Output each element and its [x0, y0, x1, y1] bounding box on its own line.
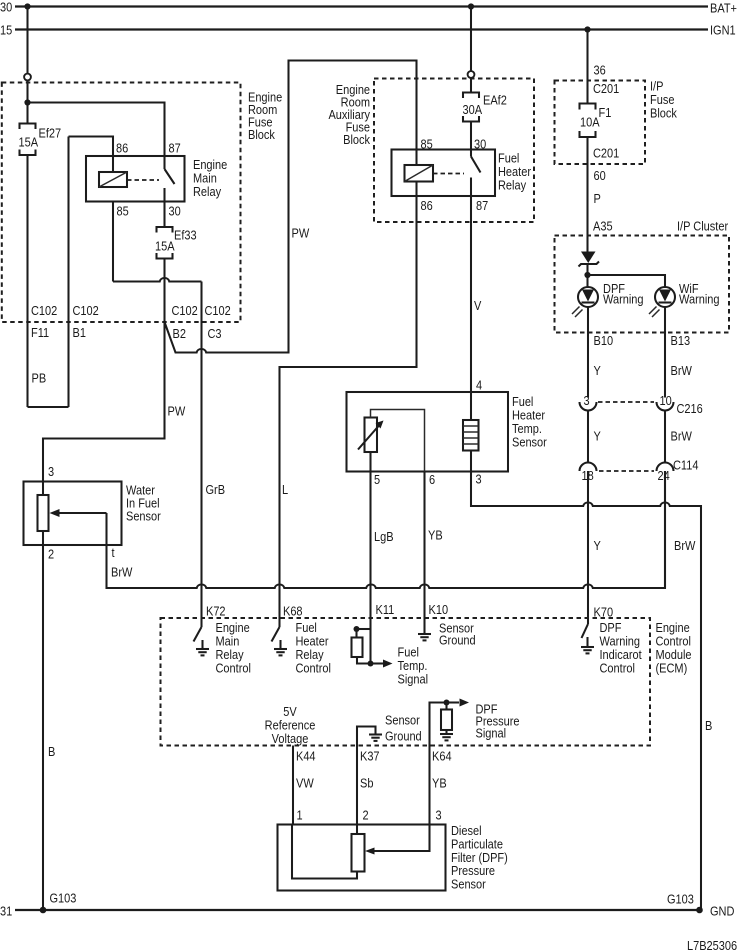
fuse Ef27 15A [18, 124, 61, 156]
wire LgB to K11 [369, 472, 371, 619]
svg-text:Warning: Warning [603, 292, 644, 307]
svg-text:10A: 10A [580, 115, 600, 130]
svg-text:P: P [594, 191, 601, 206]
wire relay 87 down V [470, 196, 472, 392]
wire bus30 to fuse Ef27 [26, 7, 28, 123]
svg-text:BrW: BrW [111, 565, 133, 580]
junction dot bus15/F1 feed [584, 26, 590, 32]
wire B2 branch to PW riser [165, 61, 417, 353]
wire thermistor top jog to pin 6 [371, 410, 425, 472]
svg-text:K44: K44 [296, 749, 316, 764]
svg-text:2: 2 [363, 808, 369, 823]
svg-text:86: 86 [420, 198, 433, 213]
svg-text:15: 15 [0, 23, 13, 38]
connector C216 pin 3 [580, 393, 597, 410]
wire PW down branch to water sensor [43, 322, 165, 482]
wire VW K44 to DPF sensor pin 1 [292, 746, 294, 825]
wire DPF lamp to B10 [587, 307, 589, 398]
svg-text:Control: Control [215, 661, 250, 676]
svg-text:GrB: GrB [205, 482, 225, 497]
svg-text:30A: 30A [462, 102, 482, 117]
svg-text:PW: PW [168, 404, 186, 419]
svg-text:Voltage: Voltage [272, 731, 309, 746]
I/P Fuse Block (dashed box) [555, 79, 677, 164]
lamp WiF Warning [649, 281, 720, 317]
wire BrW horizontal with hops [107, 471, 666, 588]
fuel temp signal arrow [371, 645, 429, 687]
heater element [463, 392, 479, 472]
connector C102 C3 label [204, 303, 231, 341]
fuse F1 10A [580, 104, 612, 138]
svg-text:C102: C102 [204, 303, 231, 318]
svg-text:L7B25306: L7B25306 [687, 938, 737, 952]
K70 switch to ground [581, 618, 594, 653]
svg-text:BrW: BrW [671, 363, 693, 378]
K10 ground [418, 618, 476, 648]
connector C102 F11 label [31, 303, 58, 340]
svg-text:Block: Block [343, 132, 370, 147]
svg-text:Relay: Relay [498, 178, 526, 193]
svg-text:87: 87 [476, 198, 489, 213]
DPF sensor arrow [365, 825, 430, 855]
svg-text:Warning: Warning [679, 292, 720, 307]
wire B1 up leg [67, 137, 69, 408]
svg-text:BrW: BrW [671, 429, 693, 444]
svg-text:F11: F11 [31, 325, 49, 340]
svg-text:85: 85 [420, 137, 433, 152]
svg-text:Signal: Signal [475, 726, 506, 741]
svg-text:86: 86 [116, 141, 129, 156]
K72 function label [215, 620, 250, 676]
thermistor element [358, 418, 384, 453]
K68 function label [296, 620, 331, 676]
wire diode to lamps junction [586, 264, 588, 288]
relay link dashed (engine main) [127, 179, 159, 181]
svg-text:24: 24 [658, 468, 671, 483]
svg-text:Control: Control [296, 661, 331, 676]
svg-text:Ef27: Ef27 [39, 126, 62, 141]
wire BrW down from C114 24 [664, 471, 666, 588]
wire Y between C216 and C114 [587, 411, 589, 463]
svg-text:K11: K11 [375, 602, 394, 617]
svg-text:B: B [705, 718, 712, 733]
wire Y down to K70 [587, 471, 589, 618]
K37 ground symbol [357, 713, 422, 746]
wire junction to WiF lamp [588, 275, 666, 288]
svg-text:Ground: Ground [439, 633, 476, 648]
connector circle on Ef27 feed [24, 74, 31, 81]
wire F1 down to cluster [586, 137, 588, 252]
connector C114 pin 24 [657, 458, 699, 484]
svg-text:Block: Block [248, 127, 275, 142]
relay switch blade (fuel heater) [471, 150, 481, 197]
svg-text:Ground: Ground [385, 729, 422, 744]
Engine Room Fuse Block (dashed box) [2, 83, 283, 323]
svg-text:Sensor: Sensor [512, 435, 547, 450]
svg-text:85: 85 [117, 204, 130, 219]
svg-text:C3: C3 [207, 326, 221, 341]
wire YB K64 to DPF sensor pin 3 [428, 746, 430, 825]
connector C102 B2 label [171, 303, 198, 341]
wire heater ground B with hops [471, 472, 701, 911]
wire Ef27 to F11 (PB) [26, 155, 28, 407]
DPF sensor element [292, 825, 365, 879]
svg-text:VW: VW [296, 776, 314, 791]
fuel heater temp sensor box [347, 392, 547, 472]
svg-text:30: 30 [0, 0, 13, 15]
DPF pressure sensor box [278, 823, 508, 892]
junction dot bus30/EAf2 feed [468, 3, 474, 9]
svg-text:G103: G103 [667, 892, 694, 907]
svg-text:B2: B2 [173, 326, 187, 341]
bus 30 (BAT+) [0, 0, 737, 16]
wire relay 86 coil out [415, 182, 417, 197]
svg-text:Signal: Signal [397, 672, 428, 687]
svg-text:C114: C114 [673, 458, 699, 473]
relay coil (engine main) [99, 172, 127, 187]
connector C216 pin 10 [657, 393, 704, 416]
svg-text:B10: B10 [594, 333, 614, 348]
svg-text:Sensor: Sensor [385, 713, 420, 728]
ground G103 left junction [40, 891, 77, 914]
connector C216 dashed link [598, 401, 654, 403]
svg-text:Sb: Sb [360, 776, 374, 791]
Engine Room Auxiliary Fuse Block (dashed box) [328, 79, 534, 223]
connector C102 B1 label [73, 303, 100, 340]
svg-text:GND: GND [710, 904, 735, 919]
wire GrB down to K72 [200, 282, 202, 619]
svg-text:4: 4 [476, 378, 482, 393]
svg-text:Ef33: Ef33 [174, 228, 197, 243]
I/P Cluster (dashed box) [555, 219, 730, 333]
svg-text:Y: Y [594, 429, 601, 444]
svg-text:C102: C102 [31, 303, 58, 318]
5V reference voltage label [265, 704, 316, 746]
DPF pressure signal label [475, 702, 519, 741]
wire BrW between C216 and C114 [664, 411, 666, 463]
bus 15 (IGN1) [0, 23, 736, 38]
wire Ef33 down B2 [163, 259, 165, 323]
svg-text:C102: C102 [73, 303, 100, 318]
svg-text:IGN1: IGN1 [710, 23, 736, 38]
wire thermistor bottom to pin 5 [369, 452, 371, 472]
svg-text:PB: PB [31, 371, 46, 386]
svg-text:36: 36 [594, 63, 607, 78]
ground G103 right junction [667, 892, 703, 914]
svg-text:B13: B13 [671, 333, 691, 348]
svg-text:PW: PW [291, 226, 309, 241]
svg-text:Block: Block [650, 106, 677, 121]
lamp DPF Warning [572, 281, 644, 317]
svg-text:3: 3 [48, 464, 54, 479]
svg-text:Sensor: Sensor [451, 877, 486, 892]
wire junction to engine main relay pin 87 [28, 103, 165, 157]
svg-text:K10: K10 [428, 602, 448, 617]
connector circle on EAf2 feed [468, 71, 475, 78]
wire IGN1 to fuse F1 [586, 30, 588, 104]
svg-text:C201: C201 [593, 81, 620, 96]
wire 85 horizontal with hop over Ef33 wire [113, 278, 202, 282]
svg-text:3: 3 [583, 393, 589, 408]
wire EAf2 to relay pin 30 [470, 122, 472, 150]
wire bus30 to fuse EAf2 [470, 7, 472, 93]
water sensor arrow [50, 509, 107, 545]
wire B down from water sensor [42, 545, 44, 910]
svg-text:Relay: Relay [193, 184, 221, 199]
svg-text:K72: K72 [206, 604, 226, 619]
wire to relay pin 86 [69, 137, 114, 173]
wire PB U-turn bottom [28, 406, 69, 408]
bus 31 (GND) [0, 904, 735, 919]
svg-text:K37: K37 [360, 749, 380, 764]
fuse EAf2 30A [462, 93, 507, 122]
K11 pull-up resistor network [352, 618, 374, 667]
svg-text:B: B [48, 744, 55, 759]
svg-text:30: 30 [474, 137, 487, 152]
svg-text:Sensor: Sensor [126, 509, 161, 524]
wire YB to K10 [423, 472, 425, 619]
junction dot lamps [584, 272, 590, 278]
svg-text:EAf2: EAf2 [483, 93, 507, 108]
relay link dashed (fuel heater) [433, 173, 464, 175]
pin 85 stub into coil [415, 150, 417, 166]
svg-text:L: L [282, 482, 288, 497]
fuse Ef33 15A [155, 227, 197, 259]
relay coil (fuel heater) [405, 165, 434, 182]
wire WiF lamp to B13 [664, 307, 666, 398]
svg-text:F1: F1 [599, 105, 612, 120]
wire 86 to L riser (K68) [280, 196, 417, 618]
svg-text:3: 3 [475, 472, 481, 487]
K68 switch to ground [272, 618, 288, 655]
junction dot bus30/Ef27 feed [24, 3, 30, 9]
svg-text:87: 87 [168, 141, 181, 156]
svg-text:G103: G103 [50, 891, 77, 906]
K64 pressure signal network [430, 699, 470, 746]
K72 switch to ground [194, 618, 210, 655]
svg-text:6: 6 [429, 472, 435, 487]
svg-text:B1: B1 [73, 325, 87, 340]
svg-text:C102: C102 [171, 303, 198, 318]
connector C114 pin 18 [580, 463, 597, 484]
svg-text:Control: Control [600, 661, 635, 676]
svg-text:Y: Y [594, 538, 601, 553]
svg-text:K64: K64 [432, 749, 452, 764]
relay switch blade (engine main) [165, 156, 175, 202]
diode D1 in cluster [579, 252, 600, 267]
svg-text:15A: 15A [155, 239, 175, 254]
svg-text:V: V [474, 298, 481, 313]
svg-text:K68: K68 [283, 604, 303, 619]
svg-text:BrW: BrW [674, 538, 696, 553]
water in fuel sensor box [24, 482, 161, 546]
relay U1 Engine Main Relay box [86, 156, 228, 202]
svg-text:C201: C201 [593, 146, 620, 161]
svg-text:I/P Cluster: I/P Cluster [677, 219, 728, 234]
svg-text:3: 3 [435, 808, 441, 823]
svg-text:(ECM): (ECM) [655, 661, 687, 676]
svg-text:60: 60 [594, 168, 607, 183]
svg-text:Y: Y [594, 363, 601, 378]
svg-text:YB: YB [428, 528, 443, 543]
node junction dot to relay 87 branch [24, 99, 30, 105]
svg-text:YB: YB [432, 776, 447, 791]
connector C114 dashed link [599, 470, 654, 472]
svg-text:30: 30 [168, 204, 181, 219]
svg-text:31: 31 [0, 904, 13, 919]
ECM Engine Control Module (dashed box) [161, 618, 692, 746]
svg-text:LgB: LgB [374, 529, 394, 544]
svg-text:1: 1 [296, 808, 302, 823]
relay U2 Fuel Heater Relay box [392, 150, 532, 197]
K70 function label [600, 620, 643, 676]
svg-text:t: t [112, 545, 116, 560]
svg-text:2: 2 [48, 547, 54, 562]
svg-text:5: 5 [374, 472, 380, 487]
svg-text:15A: 15A [18, 135, 38, 150]
wire Sb K37 to DPF sensor pin 2 [356, 746, 358, 825]
svg-text:BAT+: BAT+ [710, 1, 737, 16]
wire relay 85 down [112, 202, 114, 282]
wire relay 30 to fuse Ef33 [163, 202, 165, 228]
svg-text:A35: A35 [593, 219, 613, 234]
svg-text:C216: C216 [677, 401, 704, 416]
water sensor element [38, 482, 49, 546]
